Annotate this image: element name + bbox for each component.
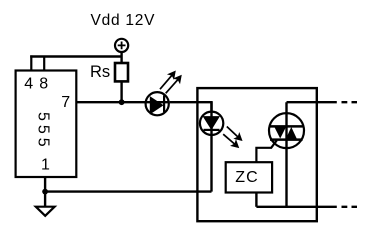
resistor Rs <box>115 63 128 81</box>
wire ZC bottom to output rail <box>255 193 257 207</box>
optocoupler U2 package outline <box>197 88 316 221</box>
wire bottom output dashes <box>342 206 358 208</box>
wire ground rail to optocoupler cathode pin <box>45 190 211 192</box>
wire 555 pin 1 down <box>44 177 46 207</box>
node junction pin1 / ground rail <box>42 189 48 195</box>
opto internal LED <box>200 102 223 192</box>
wire pin 4 stub <box>30 55 32 70</box>
wire top rail from pins 4,8 to Vdd node <box>30 55 121 57</box>
svg-text:ZC: ZC <box>235 169 259 186</box>
opto LED coupling arrows <box>223 127 241 148</box>
svg-text:1: 1 <box>41 157 50 174</box>
wire bottom output rail <box>256 206 336 208</box>
wire ZC top to triac gate <box>256 140 276 162</box>
svg-text:4: 4 <box>24 75 33 92</box>
IC U1 555 <box>16 71 77 178</box>
svg-text:Vdd 12V: Vdd 12V <box>91 12 156 29</box>
wire pin 8 stub <box>43 57 45 71</box>
wire top output dashes <box>342 101 358 103</box>
svg-text:Rs: Rs <box>90 63 110 81</box>
zero crossing detector ZC <box>226 162 272 192</box>
svg-text:555: 555 <box>34 112 51 151</box>
ground <box>36 207 55 216</box>
svg-text:7: 7 <box>61 94 70 111</box>
wire pin 7 to LED <box>76 101 169 103</box>
svg-text:8: 8 <box>39 75 48 92</box>
node junction Rs / pin7 <box>119 99 125 105</box>
wire top output to right pin <box>287 101 337 103</box>
wire triac vertical through <box>285 102 287 207</box>
triac <box>269 113 304 148</box>
LED D1 emission arrows <box>160 72 181 94</box>
wire LED to optocoupler input pin <box>170 102 212 111</box>
LED D1 indicator <box>146 92 169 115</box>
wire resistor bottom to pin 7 net <box>120 81 122 102</box>
wire Vdd stub to resistor <box>120 52 122 64</box>
power supply plus terminal <box>115 39 128 52</box>
